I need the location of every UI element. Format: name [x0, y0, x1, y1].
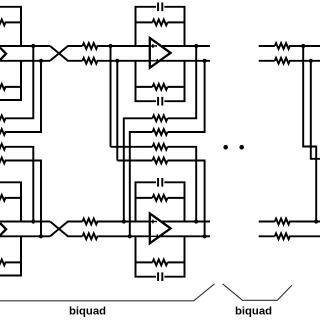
wire stage3 -in down-coupling jog	[311, 61, 320, 159]
wire stage3 top input line	[259, 45, 275, 47]
capacitor C12a	[158, 3, 162, 12]
wire opamp21 bottom feedback vertical	[20, 236, 22, 275]
wire opamp11 bottom capacitor feedback line	[0, 61, 21, 100]
U22 input stub and plus mark (bottom)	[151, 234, 159, 238]
wire U12 +in down to coupling line C	[110, 46, 112, 147]
resistor R18a (stage3 top input)	[275, 43, 320, 49]
resistor R11a (feedback, partially off-page)	[0, 20, 21, 26]
resistor R21a (feedback, partially off-page)	[0, 195, 21, 201]
node row2 U21 -out junction	[39, 234, 43, 238]
node stage3 -in junction	[309, 59, 313, 63]
resistor R14b (U11 -out feedback, off-page left)	[0, 61, 41, 135]
resistor R12a (top input)	[83, 43, 151, 49]
wire C22b feedback bottom line	[136, 236, 185, 276]
resistor R28b (row2 stage3 bottom)	[275, 233, 320, 239]
resistor R23b (feedback bottom)	[136, 260, 185, 266]
wire opamp21 bottom capacitor feedback line	[0, 236, 21, 275]
resistor R28a (row2 stage3 top)	[275, 219, 320, 225]
node row2 U22 +out junction	[194, 219, 198, 223]
resistor R17b zigzag	[153, 158, 168, 164]
wire opamp21 top capacitor feedback line	[0, 182, 21, 221]
wire stage3 bottom input line	[259, 60, 275, 62]
wire opamp11 bottom resistor feedback line	[0, 84, 21, 90]
ellipsis dot 2 (more biquads)	[239, 145, 244, 150]
wire opamp11 top capacitor feedback line	[0, 7, 21, 46]
wire crossover lower-to-upper	[50, 46, 82, 61]
node U12 +in junction	[108, 44, 112, 48]
node row2 U22 -out junction	[203, 234, 207, 238]
ellipsis dot 1 (more biquads)	[223, 145, 228, 150]
node row2 U22 -in junction	[128, 234, 132, 238]
wire U21 positive output line	[0, 221, 50, 223]
wire stage3 +in down-coupling jog	[303, 46, 316, 222]
capacitor C12b	[158, 97, 162, 106]
op-amp U12	[150, 38, 171, 68]
wire opamp21 bottom resistor feedback line	[0, 260, 21, 266]
wire row2 stage3 bottom input line	[259, 235, 275, 237]
U12 input stub and plus mark (top)	[151, 44, 157, 48]
wire crossover upper-to-lower	[50, 46, 82, 61]
op-amp U22	[150, 214, 171, 244]
resistor R16a zigzag	[153, 115, 168, 121]
wire U12 positive output line	[152, 45, 210, 47]
U12 input stub and plus mark (bottom)	[151, 59, 159, 63]
resistor R18b (stage3 bottom input)	[275, 58, 320, 64]
capacitor C22b	[158, 272, 162, 281]
resistor R15b (row2 U21 -out coupling, off-page left)	[0, 158, 41, 237]
node U12 +out junction	[194, 44, 198, 48]
wire U22 positive output line	[152, 221, 210, 223]
resistor R23a (feedback top)	[136, 195, 185, 201]
node stage3 +in junction	[301, 44, 305, 48]
brace under second biquad	[223, 284, 292, 301]
op-amp U21 (output tip, clipped at left edge)	[0, 223, 6, 235]
wire opamp11 bottom feedback vertical	[20, 61, 22, 100]
node row2 U21 +out junction	[31, 219, 35, 223]
resistor R16b zigzag	[153, 129, 168, 135]
wire C12b feedback bottom line	[136, 61, 185, 101]
svg-text:biquad: biquad	[69, 306, 106, 318]
wire U12 negative output line	[152, 60, 210, 62]
resistor R14a (U11 +out feedback, off-page left)	[0, 46, 33, 121]
wire U22 negative output line	[152, 235, 210, 237]
resistor R15a (row2 U21 +out coupling, off-page left)	[0, 144, 33, 222]
resistor R17b (line D: row2 U22 -out up-coupling)	[117, 161, 204, 237]
node U12 -out junction	[203, 59, 207, 63]
node U11 -out junction	[39, 59, 43, 63]
wire U12 -in down to coupling line D	[116, 61, 118, 161]
node U12 -in junction	[115, 59, 119, 63]
resistor R22b (bottom input)	[83, 233, 151, 239]
wire U11 negative output line	[0, 60, 50, 62]
wire crossover upper-to-lower	[50, 222, 82, 237]
resistor R13a (feedback top)	[136, 20, 185, 26]
wire C12a feedback top line	[136, 7, 185, 46]
resistor R12b (bottom input)	[83, 58, 151, 64]
brace under first biquad	[0, 284, 215, 301]
resistor R13b (feedback bottom)	[136, 84, 185, 90]
node row2 stage3 +in junction	[314, 219, 318, 223]
node U11 +out junction	[31, 44, 35, 48]
node row2 U22 +in junction	[122, 219, 126, 223]
U22 input stub and plus mark (top)	[151, 220, 157, 224]
wire U21 negative output line	[0, 235, 50, 237]
capacitor C22a	[158, 178, 162, 187]
svg-text:biquad: biquad	[235, 306, 272, 318]
op-amp U11 (output tip, clipped at left edge)	[0, 48, 6, 60]
resistor R17a (line C: row2 U22 +out up-coupling)	[111, 147, 197, 222]
resistor R16b (line B: U12 -out to row2 -in)	[130, 61, 205, 237]
resistor R17a zigzag	[153, 144, 168, 150]
wire C22a feedback top line	[136, 182, 185, 221]
wire row2 stage3 top input line	[259, 221, 275, 223]
resistor R22a (top input)	[83, 219, 151, 225]
resistor R16a (line A: U12 +out to row2 +in)	[124, 46, 196, 222]
wire crossover lower-to-upper	[50, 222, 82, 237]
wire U11 positive output line	[0, 45, 50, 47]
